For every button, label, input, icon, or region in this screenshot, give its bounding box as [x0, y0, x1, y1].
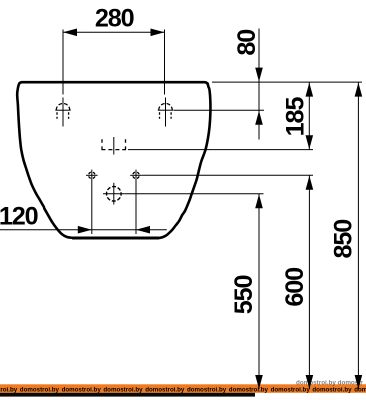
svg-text:domostroi.by domostr: domostroi.by domostr	[296, 379, 363, 386]
svg-text:domostroi.by: domostroi.by	[229, 386, 269, 393]
extension line 120 right	[135, 181, 137, 234]
svg-text:domostroi.by: domostroi.by	[271, 386, 311, 393]
dim line 120	[0, 229, 167, 231]
dim line 600	[308, 175, 310, 389]
ref line mixer (550 upper)	[125, 193, 264, 195]
faucet hole left crosshair	[89, 172, 96, 179]
svg-text:600: 600	[281, 268, 309, 307]
arrow 550 up	[255, 194, 263, 208]
watermark black underline	[0, 393, 255, 397]
bidet bottom edge emphasis	[72, 236, 159, 239]
arrow 80 up (tip at hole line)	[255, 111, 263, 125]
arrow 120 right (outside, pointing left)	[136, 226, 150, 234]
dim line 80 upper segment	[258, 29, 260, 140]
svg-text:domostroi.by: domostroi.by	[0, 386, 18, 393]
faucet hole right crosshair	[133, 172, 140, 179]
arrow 850 down	[355, 375, 363, 389]
svg-text:550: 550	[230, 275, 258, 314]
svg-text:domostroi.by: domostroi.by	[20, 386, 60, 393]
arrow 120 left (outside, pointing right)	[78, 226, 92, 234]
bidet outline	[17, 82, 210, 238]
svg-text:domostroi.by: domostroi.by	[145, 386, 185, 393]
arrow 600 up	[306, 176, 314, 190]
svg-text:120: 120	[0, 202, 38, 230]
arrow 550 down	[255, 375, 263, 389]
watermark text	[0, 386, 366, 393]
extension line 280 right	[164, 30, 166, 95]
svg-text:domostroi.by: domostroi.by	[354, 386, 366, 393]
dim line 185	[308, 82, 310, 150]
ref line faucet (600 upper)	[142, 174, 313, 176]
ref line drain (185 lower)	[128, 149, 313, 151]
svg-text:280: 280	[95, 5, 134, 33]
arrow 600 down	[306, 375, 314, 389]
arrow 185 down	[306, 135, 314, 149]
svg-text:domostroi.by: domostroi.by	[187, 386, 227, 393]
ref line top edge (850/80 upper)	[212, 81, 362, 83]
extension line 280 left	[62, 30, 64, 95]
fixing hole right: dashed arc	[159, 103, 173, 110]
dim line 850	[357, 82, 359, 389]
arrow 280 right	[151, 29, 165, 37]
svg-text:185: 185	[282, 97, 310, 137]
large circle crosshair	[103, 193, 125, 195]
fixing hole left: dashed arc	[56, 103, 70, 110]
dim line 550	[258, 194, 260, 389]
fixing hole right: centerlines	[165, 98, 167, 127]
extension line 120 left	[91, 181, 93, 234]
fixing hole left: centerlines	[62, 98, 64, 127]
svg-text:80: 80	[233, 30, 261, 56]
svg-text:850: 850	[330, 220, 358, 259]
svg-text:domostroi.by: domostroi.by	[62, 386, 102, 393]
fixing hole right: dashed side lines	[159, 112, 161, 119]
large dashed circle (mixer hole)	[107, 187, 122, 202]
arrow 280 left	[63, 29, 77, 37]
svg-text:domostroi.by: domostroi.by	[103, 386, 143, 393]
arrow 185 up	[306, 83, 314, 97]
watermark orange bar	[0, 384, 366, 393]
arrow 80 down (tip at top edge)	[255, 68, 263, 82]
fixing hole left: dashed side lines	[56, 112, 58, 119]
ref line fixing holes (80 lower)	[174, 109, 265, 111]
drain symbol dashed outline	[102, 139, 126, 149]
dim line 280	[63, 31, 165, 33]
drain symbol centerline	[113, 137, 115, 155]
arrow 850 up	[355, 83, 363, 97]
svg-text:domostroi.by: domostroi.by	[312, 386, 352, 393]
